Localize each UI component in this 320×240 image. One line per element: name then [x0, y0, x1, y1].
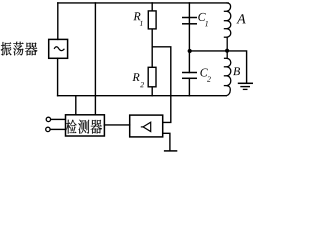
label C2 [200, 69, 210, 82]
node dot A-B tap [225, 49, 229, 53]
label detector 检测器 [66, 120, 102, 134]
amplifier input tick [141, 126, 143, 128]
wire R2 bottom [151, 87, 153, 96]
oscillator box [49, 39, 68, 58]
wire C2 bottom [188, 78, 190, 95]
wire R-divider tap to amplifier output [152, 47, 171, 123]
inductor A [224, 3, 231, 49]
label R2 [132, 73, 144, 87]
resistor R1 [148, 11, 156, 29]
wire middle vertical [94, 3, 96, 115]
label R1 [133, 12, 142, 25]
label oscillator 振荡器 [1, 42, 38, 56]
wire detector to amplifier [104, 124, 129, 126]
terminal 2 [46, 127, 50, 131]
capacitor C2 [182, 73, 197, 79]
ground (amplifier) [164, 150, 177, 152]
wire terminal 1 stub [51, 118, 66, 120]
wire C1-C2 junction [188, 18, 190, 73]
node dot C1-C2 tap [188, 49, 192, 53]
wire R1-R2 junction [151, 29, 153, 67]
label A [236, 14, 245, 23]
wire left vertical [57, 3, 59, 40]
label B [233, 67, 240, 75]
detector box [66, 115, 105, 136]
wire top bus [58, 2, 228, 4]
amplifier box U1 [130, 115, 163, 137]
wire amplifier ground stub [163, 133, 170, 150]
wire C1 top [188, 3, 190, 18]
wire bottom bus [58, 95, 227, 97]
wire terminal 2 stub [50, 128, 65, 130]
terminal 1 [46, 117, 50, 121]
resistor R2 [148, 67, 156, 87]
ground (centre tap) [238, 83, 253, 89]
capacitor C1 [182, 18, 197, 24]
label C1 [198, 13, 207, 26]
inductor B [224, 52, 231, 96]
wire oscillator bottom [57, 58, 59, 95]
wire R1 top [151, 3, 153, 11]
AC source sine symbol [54, 47, 64, 51]
wire detector top input [75, 96, 77, 115]
amplifier triangle [143, 122, 151, 131]
wire centre tap to ground [190, 51, 247, 83]
